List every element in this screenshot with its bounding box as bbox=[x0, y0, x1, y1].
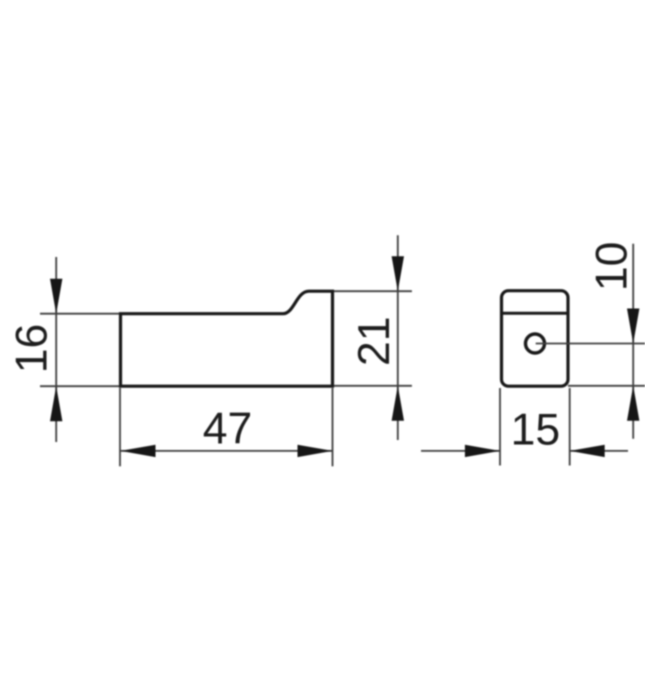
svg-text:21: 21 bbox=[350, 317, 399, 367]
svg-text:15: 15 bbox=[511, 406, 561, 455]
svg-text:47: 47 bbox=[203, 405, 253, 454]
svg-text:10: 10 bbox=[588, 242, 637, 292]
svg-text:16: 16 bbox=[8, 324, 57, 374]
